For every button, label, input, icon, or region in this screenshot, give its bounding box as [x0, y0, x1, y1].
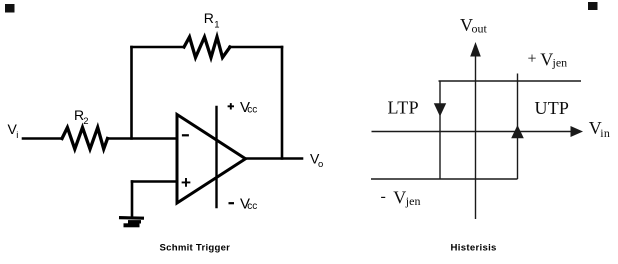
wire to ground — [131, 182, 134, 217]
op-amp supply vertical line — [215, 107, 217, 207]
+Vjen level line — [439, 80, 582, 82]
svg-text:V: V — [393, 188, 406, 208]
svg-text:LTP: LTP — [388, 98, 420, 118]
wire Vi input to R2 — [23, 137, 62, 140]
wire non-inverting input — [132, 180, 177, 183]
svg-text:out: out — [472, 22, 488, 36]
corner marker square top-right — [588, 2, 598, 10]
svg-text:Schmit Trigger: Schmit Trigger — [160, 243, 231, 254]
label -Vcc — [240, 196, 257, 213]
svg-text:Histerisis: Histerisis — [451, 243, 497, 254]
svg-text:jen: jen — [552, 56, 568, 70]
Vout axis arrowhead — [470, 42, 481, 57]
wire feedback top right segment — [230, 46, 283, 49]
svg-text:+: + — [528, 51, 537, 68]
resistor R1 — [184, 37, 230, 58]
svg-text:i: i — [16, 130, 18, 141]
svg-text:cc: cc — [247, 201, 257, 212]
label R1 — [204, 10, 220, 31]
wire output from op-amp to Vo — [246, 157, 303, 160]
Vin axis — [372, 131, 572, 133]
-Vjen level line — [371, 178, 518, 180]
svg-text:2: 2 — [83, 116, 88, 127]
Vin axis arrowhead — [571, 126, 584, 137]
svg-text:1: 1 — [214, 20, 219, 31]
resistor R2 — [62, 128, 108, 150]
label -Vjen — [381, 188, 421, 209]
svg-text:V: V — [540, 50, 553, 70]
svg-text:jen: jen — [405, 194, 421, 208]
label R2 — [74, 107, 89, 127]
wire feedback top left segment — [132, 46, 184, 49]
wire feedback right vertical to output node — [281, 47, 284, 159]
label Vin — [589, 118, 610, 140]
wire R2 to op-amp inverting input — [108, 137, 178, 140]
op-amp non-inverting input plus sign — [183, 179, 190, 186]
hysteresis loop right edge UTP — [517, 74, 519, 180]
svg-text:o: o — [318, 159, 323, 170]
op-amp U1 — [177, 115, 246, 204]
down arrow on LTP edge — [434, 103, 446, 116]
label +Vjen — [528, 50, 568, 70]
minus sign of -Vcc — [229, 202, 235, 204]
svg-text:R: R — [204, 10, 214, 26]
label Vi — [8, 121, 19, 141]
wire feedback left vertical — [130, 47, 133, 139]
svg-text:in: in — [600, 126, 610, 140]
op-amp inverting input minus sign — [183, 134, 188, 136]
ground — [119, 218, 144, 226]
label +Vcc — [240, 99, 257, 116]
label Vout — [460, 15, 488, 36]
svg-text:cc: cc — [247, 105, 257, 116]
Vout axis — [475, 54, 477, 219]
label Vo — [310, 151, 323, 170]
up arrow on UTP edge — [511, 125, 524, 138]
plus sign of +Vcc — [228, 103, 234, 109]
svg-text:-: - — [381, 188, 386, 205]
corner marker square top-left — [5, 4, 15, 13]
svg-text:UTP: UTP — [535, 98, 570, 118]
hysteresis loop left edge LTP — [439, 81, 441, 179]
